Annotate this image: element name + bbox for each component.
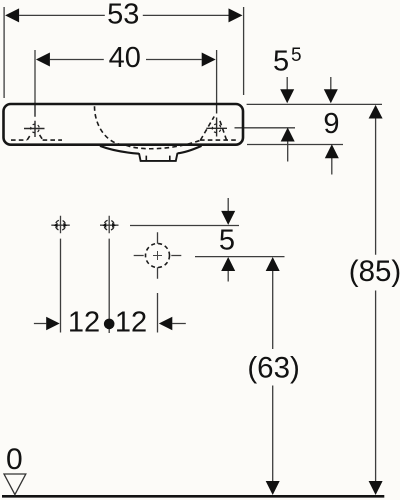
svg-text:9: 9: [323, 108, 339, 140]
svg-text:5: 5: [291, 45, 302, 66]
svg-text:53: 53: [107, 0, 139, 30]
svg-text:(63): (63): [247, 351, 299, 384]
svg-text:5: 5: [273, 45, 289, 77]
svg-text:12: 12: [115, 307, 147, 339]
svg-text:5: 5: [219, 225, 235, 257]
svg-text:(85): (85): [349, 255, 400, 288]
svg-text:12: 12: [68, 307, 100, 339]
svg-text:40: 40: [109, 42, 141, 74]
svg-text:0: 0: [6, 443, 23, 476]
